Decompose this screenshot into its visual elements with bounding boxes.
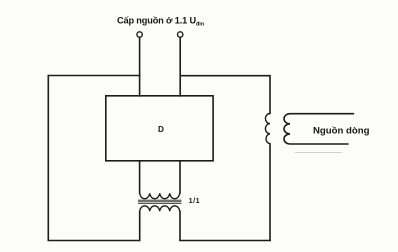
CT primary coil (3 bumps on right edge, bulging left) [265, 114, 270, 144]
CT secondary coil (3 bumps, bulging left) [284, 114, 354, 144]
scan smudge under label [295, 152, 342, 154]
transformer T1 secondary winding (scallops facing up) [140, 206, 180, 211]
wire: transformer secondary left lead down [139, 211, 141, 240]
wire: outer loop left edge [47, 76, 49, 241]
wire: left terminal down to box D [139, 37, 141, 96]
svg-text:1/1: 1/1 [189, 196, 201, 205]
wire: bottom-left horizontal [48, 240, 139, 242]
wire: outer loop right edge lower (from CT coil to bottom) [269, 144, 271, 241]
wire: right terminal down to box D [179, 37, 181, 96]
wire: box D to transformer, left lead [139, 161, 141, 194]
terminal left [137, 32, 142, 37]
wire: top-left horizontal of outer loop [48, 75, 139, 77]
wire: outer loop right edge upper (down to CT coil) [269, 76, 271, 114]
svg-text:Nguồn dòng: Nguồn dòng [313, 126, 370, 137]
wire: top-right horizontal of outer loop [180, 75, 270, 77]
wire: transformer secondary right lead down [179, 211, 181, 240]
wire: bottom-right horizontal [180, 240, 270, 242]
wire: box D to transformer, right lead [179, 161, 181, 194]
terminal right [178, 32, 183, 37]
box D [106, 96, 213, 161]
transformer T1 primary winding (scallops facing down) [140, 193, 180, 198]
svg-text:D: D [158, 125, 164, 134]
transformer T1 core lines [138, 200, 181, 203]
